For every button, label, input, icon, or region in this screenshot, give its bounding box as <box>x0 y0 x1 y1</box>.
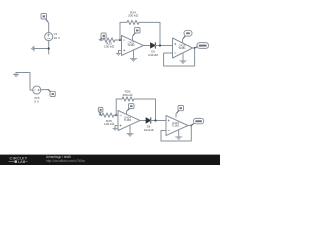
wire R23 to op-amp <box>118 39 122 41</box>
wire flag pole B <box>100 112 101 115</box>
svg-text:TL081: TL081 <box>127 43 135 47</box>
node flag VCC (top-left) <box>41 14 47 20</box>
ground (OA14 V-) <box>127 134 134 137</box>
svg-text:http://circuitlab.com/c/7k5ar: http://circuitlab.com/c/7k5ar <box>46 159 86 163</box>
wire to ground (left) <box>34 48 49 50</box>
node junction feedback tap B <box>115 114 117 116</box>
op-amp OA15 <box>166 116 188 136</box>
wire ground to V2 <box>16 73 33 91</box>
wire OA13 feedback loop <box>164 48 195 66</box>
svg-text:10 V: 10 V <box>54 36 61 40</box>
diode D5 <box>148 43 158 57</box>
svg-text:LAB: LAB <box>18 160 26 164</box>
svg-text:1N4148: 1N4148 <box>148 53 158 57</box>
svg-text:100 kΩ: 100 kΩ <box>104 122 115 126</box>
op-amp OA12 <box>122 36 144 56</box>
svg-text:TL081: TL081 <box>124 118 132 122</box>
resistor R25 <box>100 113 116 126</box>
wire feedback left vertical B <box>115 99 117 115</box>
resistor R23 <box>100 38 118 49</box>
svg-text:TL081: TL081 <box>178 46 186 50</box>
svg-text:200 kΩ: 200 kΩ <box>123 93 134 97</box>
node junction (OA13 out) <box>194 47 196 49</box>
wire flag pole to V1 <box>46 19 48 21</box>
wire feedback right vertical <box>159 22 161 45</box>
wire pole to output flag B <box>188 125 191 127</box>
power flag OA15 <box>176 106 184 118</box>
ground (OA12 +input) <box>116 53 121 55</box>
svg-text:200 kΩ: 200 kΩ <box>128 13 139 17</box>
wire OA13 V- pin <box>182 54 184 61</box>
voltage source V2 <box>33 86 41 104</box>
wire feedback right vertical B <box>155 99 157 121</box>
power flag OA14 <box>127 104 135 115</box>
voltage source V1 <box>45 32 61 41</box>
svg-text:1N4148: 1N4148 <box>144 128 154 132</box>
wire feedback left vertical <box>119 22 121 40</box>
ground (OA14 +input) <box>113 128 118 130</box>
wire diode to OA13 <box>155 45 172 47</box>
op-amp OA14 <box>118 111 140 131</box>
footer credit text <box>46 155 86 163</box>
ground (OA13 V-) <box>180 61 187 64</box>
wire to OA14 <box>116 114 118 116</box>
wire OA15 V- pin <box>178 130 180 137</box>
ground (OA15 V-) <box>175 137 182 140</box>
wire +input to ground <box>119 51 122 54</box>
ground (OA12 V-) <box>130 59 137 62</box>
node junction (OA15 out) <box>190 125 192 127</box>
ground (V2 branch, pointing down) <box>13 73 19 78</box>
node flag (V2 output) <box>50 91 55 96</box>
ground (pointing left) <box>31 46 34 51</box>
node flag (input A) <box>101 33 106 38</box>
op-amp OA13 <box>173 38 193 58</box>
svg-text:TL081: TL081 <box>172 123 180 127</box>
wire flag pole <box>100 38 102 40</box>
node junction <box>48 47 50 49</box>
CircuitLab logo <box>9 157 28 165</box>
wire V2 to flag <box>41 89 48 91</box>
svg-text:100 kΩ: 100 kΩ <box>104 45 115 49</box>
footer bar <box>0 155 220 165</box>
power flag OA12 <box>133 28 141 41</box>
node flag (output A) <box>197 43 209 49</box>
wire V1 bottom <box>48 41 50 54</box>
wire pole to output flag A <box>195 47 198 48</box>
wire OA14 out to diode <box>140 120 146 122</box>
resistor R24 (feedback) <box>120 11 160 25</box>
node junction (diode cathode / feedback) <box>159 44 161 46</box>
wire OA12 V- pin <box>133 50 135 59</box>
wire +input to ground B <box>115 126 118 129</box>
wire OA12 out to diode <box>144 45 151 47</box>
wire OA13 output stub <box>193 47 195 49</box>
node flag (input B) <box>98 107 103 112</box>
node junction feedback tap A <box>119 39 121 41</box>
diode D6 <box>144 118 154 132</box>
node junction (D6 cathode / feedback) <box>154 119 156 121</box>
wire OA14 V- pin <box>129 125 131 134</box>
node flag (output B) <box>194 118 204 123</box>
resistor R26 (feedback) <box>116 89 155 101</box>
wire diode to OA15 <box>151 120 166 122</box>
power flag OA13 <box>183 30 193 43</box>
wire OA15 feedback loop <box>161 126 191 142</box>
